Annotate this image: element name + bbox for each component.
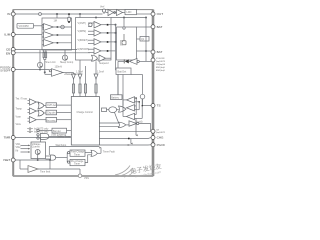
svg-text:BAT: BAT xyxy=(157,25,163,29)
svg-text:SYSOFF: SYSOFF xyxy=(156,58,165,60)
svg-text:Watchdog: Watchdog xyxy=(56,144,67,147)
svg-text:TS: TS xyxy=(157,104,161,108)
svg-text:1.5mA: 1.5mA xyxy=(76,70,83,73)
svg-text:V(SHORT): V(SHORT) xyxy=(78,48,90,51)
svg-text:Suspend: Suspend xyxy=(99,62,109,65)
svg-text:Time limit: Time limit xyxy=(40,170,50,173)
svg-text:CE: CE xyxy=(156,129,160,131)
svg-text:EN1(bq24075): EN1(bq24075) xyxy=(156,67,165,69)
svg-text:Bat det: Bat det xyxy=(53,130,61,133)
svg-text:Tsusp: Tsusp xyxy=(16,108,23,111)
svg-text:VIN DPM: VIN DPM xyxy=(19,25,29,28)
svg-text:Chg det: Chg det xyxy=(47,112,56,115)
svg-text:1.5mA: 1.5mA xyxy=(97,70,104,73)
svg-text:TMR: TMR xyxy=(4,136,11,140)
svg-text:V(INDET): V(INDET) xyxy=(78,39,89,42)
svg-text:Vlow: Vlow xyxy=(16,123,21,126)
svg-text:VSS: VSS xyxy=(84,177,89,180)
svg-text:EN2(bq24075): EN2(bq24075) xyxy=(156,70,165,72)
svg-text:Vref: Vref xyxy=(100,6,105,9)
svg-text:Charge Control: Charge Control xyxy=(77,111,94,114)
svg-text:Timer: Timer xyxy=(74,163,80,166)
svg-text:(bq24075): (bq24075) xyxy=(156,61,165,63)
svg-text:Twt / Tmax: Twt / Tmax xyxy=(16,98,28,101)
svg-text:V(DPM): V(DPM) xyxy=(78,30,87,33)
svg-text:Sleep Comp: Sleep Comp xyxy=(60,61,74,64)
svg-text:Battery: Battery xyxy=(111,96,119,99)
svg-text:LDO: LDO xyxy=(127,11,132,14)
svg-text:130mV: 130mV xyxy=(55,66,63,69)
svg-text:IN: IN xyxy=(7,12,10,16)
svg-text:Batt Det: Batt Det xyxy=(118,70,127,73)
svg-text:PGOOD: PGOOD xyxy=(157,143,165,147)
svg-text:Safety Timer: Safety Timer xyxy=(57,135,71,138)
svg-text:T(cold): T(cold) xyxy=(135,121,143,124)
svg-text:1M: 1M xyxy=(54,19,57,22)
svg-text:CHG: CHG xyxy=(157,136,164,140)
svg-text:CE(bq2407x): CE(bq2407x) xyxy=(156,64,165,66)
svg-text:Vovp: Vovp xyxy=(16,116,22,119)
svg-text:Time Limit: Time Limit xyxy=(45,61,56,64)
svg-text:ISET: ISET xyxy=(3,158,10,162)
svg-text:Bat comp: Bat comp xyxy=(47,119,57,122)
svg-text:EN: EN xyxy=(6,51,10,55)
svg-text:Current: Current xyxy=(32,145,40,148)
svg-text:bq24072 only: bq24072 only xyxy=(34,131,49,134)
svg-text:ILIM: ILIM xyxy=(4,33,10,37)
svg-text:(bq24072): (bq24072) xyxy=(156,132,165,134)
svg-text:OUT: OUT xyxy=(157,12,164,16)
svg-text:BAT: BAT xyxy=(157,50,163,54)
svg-text:Timer Fault: Timer Fault xyxy=(103,150,115,153)
svg-text:SYSOFF: SYSOFF xyxy=(0,70,10,73)
svg-text:Timer: Timer xyxy=(74,153,80,156)
svg-text:OVP det: OVP det xyxy=(47,104,56,107)
svg-text:V(OVP): V(OVP) xyxy=(78,22,86,25)
